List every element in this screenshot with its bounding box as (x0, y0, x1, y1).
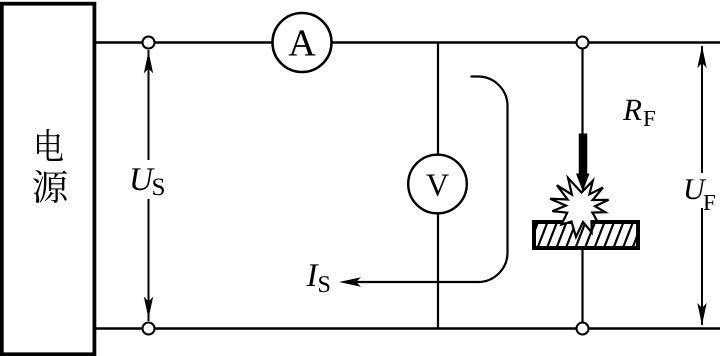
ammeter A (273, 13, 332, 72)
voltmeter V (408, 155, 467, 214)
wire RF branch lower vertical (581, 247, 583, 329)
node top-right junction (577, 37, 589, 49)
label IS (306, 264, 329, 292)
spark star at RF surface (550, 178, 609, 237)
wire top horizontal bus (94, 41, 720, 44)
wire RF branch upper vertical (581, 43, 583, 137)
wire IS sampling hook (349, 77, 508, 283)
label UF (686, 179, 715, 210)
wire voltmeter branch vertical (437, 43, 439, 329)
label US (132, 168, 164, 195)
electrode thick lead with arrow into spark (576, 134, 590, 192)
node bottom-right junction (577, 323, 589, 335)
arrow IS head pointing left (339, 277, 361, 287)
resistor RF disc hatched body (526, 217, 654, 253)
node top-left junction (143, 37, 155, 49)
label RF (623, 100, 655, 126)
arrow UF measured voltage double-headed (697, 46, 706, 325)
node bottom-left junction (143, 323, 155, 335)
power source box 电源 (2, 4, 95, 355)
arrow US source voltage double-headed (144, 50, 153, 321)
wire bottom horizontal bus (94, 327, 720, 330)
